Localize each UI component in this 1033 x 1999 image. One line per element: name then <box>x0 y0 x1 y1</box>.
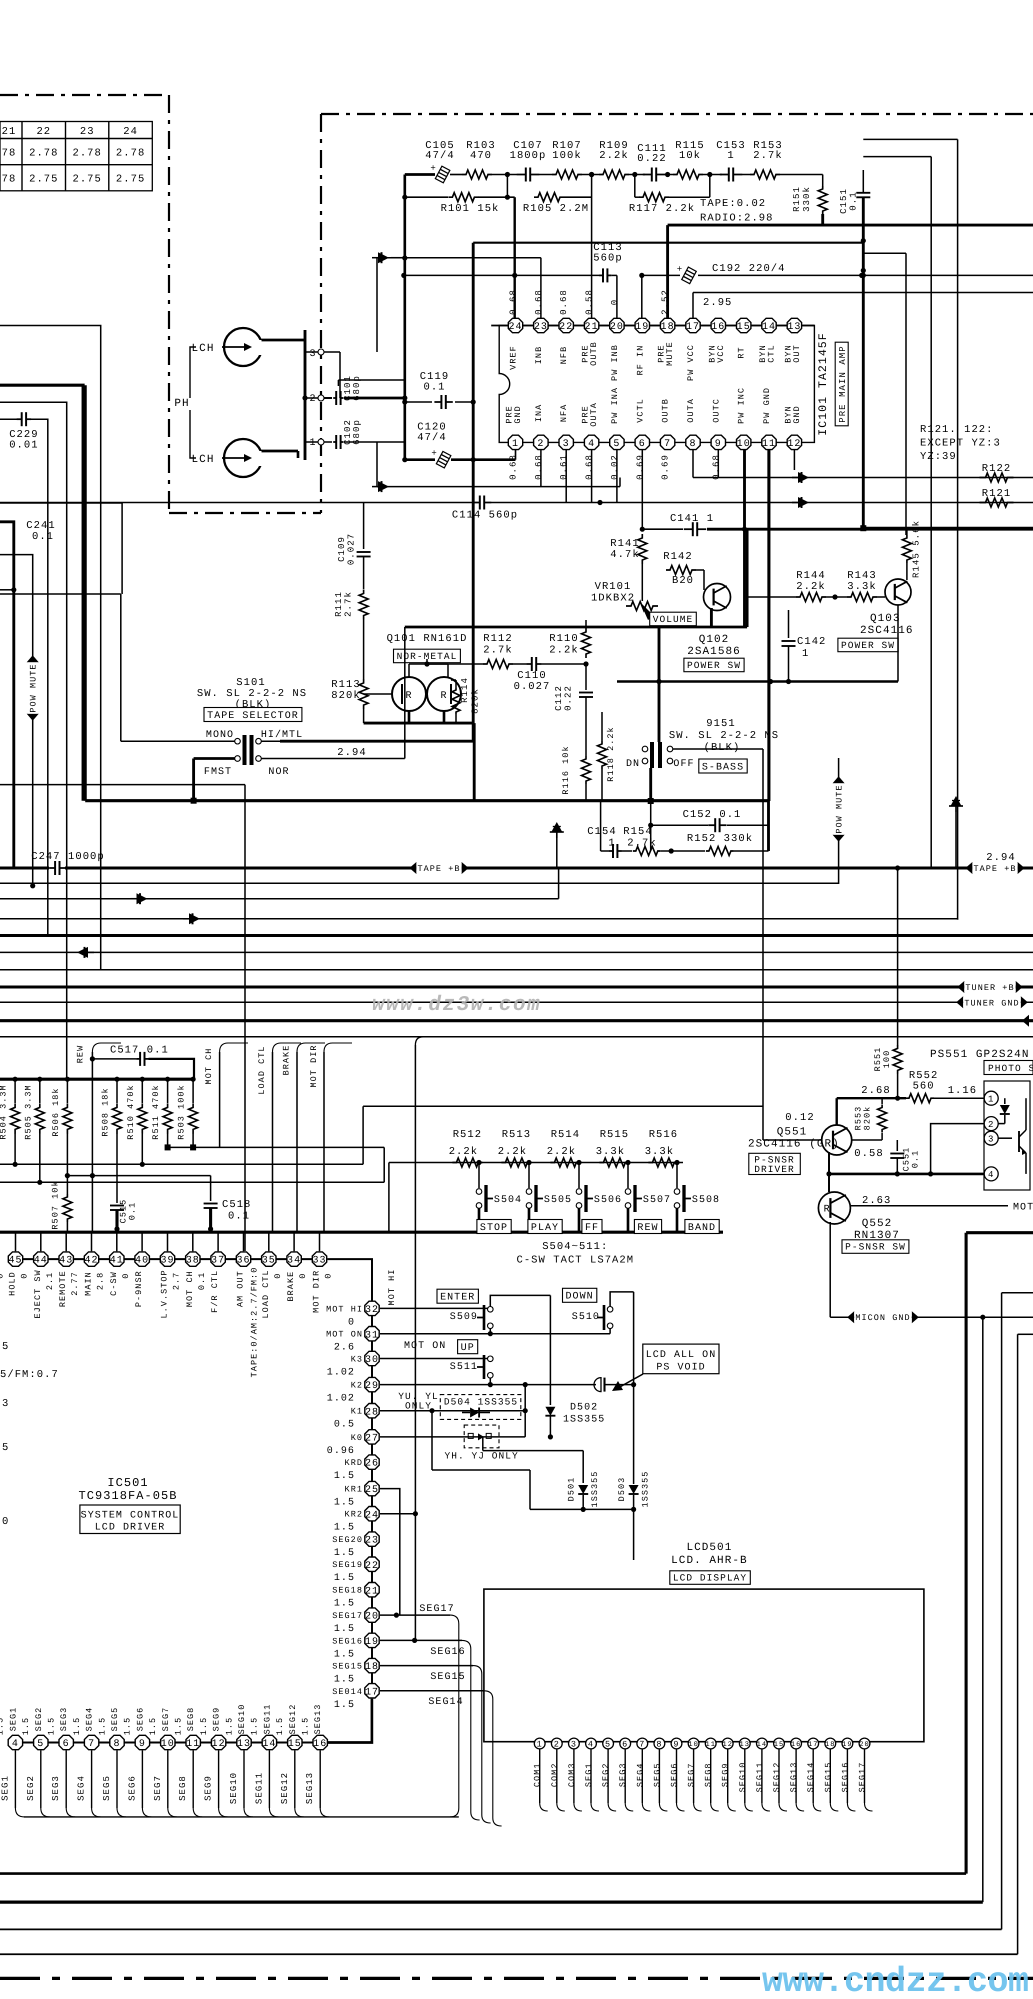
svg-text:5: 5 <box>613 439 620 450</box>
wire thick y529 <box>642 528 683 530</box>
svg-text:0.02: 0.02 <box>610 454 620 480</box>
IC501 pin 7 <box>84 1735 98 1749</box>
net MICON GND <box>830 1316 1033 1318</box>
svg-text:BRAKE: BRAKE <box>286 1271 296 1302</box>
svg-text:45: 45 <box>8 1256 22 1267</box>
resistor R103 <box>462 170 492 179</box>
ground sym right <box>951 796 962 806</box>
svg-text:www.cndzz.com: www.cndzz.com <box>762 1962 1029 1999</box>
svg-text:6: 6 <box>63 1739 70 1750</box>
svg-text:3.3k: 3.3k <box>596 1146 625 1158</box>
svg-text:12: 12 <box>787 439 801 450</box>
IC101 pin 5 <box>610 435 624 449</box>
svg-text:2.68: 2.68 <box>861 1085 890 1097</box>
svg-text:1DKBX2: 1DKBX2 <box>591 593 635 605</box>
svg-text:0.68: 0.68 <box>509 454 519 480</box>
bus line y883 <box>0 882 839 884</box>
bus line y987 thick TUNER+B <box>0 985 1033 988</box>
jack LCH bottom <box>224 439 262 477</box>
LCD pin 1 <box>534 1738 545 1749</box>
IC501 pin 36 <box>243 1232 245 1251</box>
svg-text:FF: FF <box>585 1223 599 1234</box>
photo sensor pin 1 <box>984 1091 998 1105</box>
svg-text:OUTA: OUTA <box>686 398 696 423</box>
svg-text:TAPE SELECTOR: TAPE SELECTOR <box>207 711 299 722</box>
svg-text:POWER SW: POWER SW <box>841 640 895 651</box>
svg-text:2.8: 2.8 <box>96 1272 106 1290</box>
bus line y1929 <box>0 1928 1002 1930</box>
svg-text:3: 3 <box>2 1398 9 1410</box>
svg-text:(BLK): (BLK) <box>704 742 741 754</box>
svg-text:5/FM:0.7: 5/FM:0.7 <box>0 1369 59 1381</box>
svg-text:EJECT SW: EJECT SW <box>33 1269 43 1318</box>
svg-text:SEG10: SEG10 <box>229 1772 239 1804</box>
svg-text:SEG5: SEG5 <box>110 1707 120 1732</box>
svg-text:2SA1586: 2SA1586 <box>687 646 741 658</box>
wire thick bus y1232 <box>0 1231 723 1234</box>
svg-text:D501: D501 <box>567 1477 577 1502</box>
wire arrow line y487 <box>376 442 378 487</box>
svg-text:78: 78 <box>2 148 17 160</box>
net TAPE +B line <box>0 866 49 869</box>
IC101 pin 4 <box>584 435 598 449</box>
wire pin20 SEG17 <box>380 1614 450 1616</box>
svg-text:2.78: 2.78 <box>72 148 101 160</box>
svg-text:SEG10: SEG10 <box>738 1762 748 1793</box>
svg-text:LCD DISPLAY: LCD DISPLAY <box>673 1573 747 1584</box>
svg-text:C112: C112 <box>554 685 564 711</box>
svg-text:22: 22 <box>36 126 51 138</box>
label UP <box>458 1340 478 1354</box>
svg-text:36: 36 <box>236 1256 250 1267</box>
svg-text:SEG18: SEG18 <box>332 1586 363 1596</box>
svg-text:1.5: 1.5 <box>0 1717 6 1735</box>
svg-text:TAPE:0.02: TAPE:0.02 <box>700 198 766 210</box>
svg-text:BAND: BAND <box>688 1223 716 1234</box>
capacitor C107 <box>517 174 526 176</box>
transistor Q102 <box>704 584 731 611</box>
wire Q551 emitter <box>828 1152 830 1174</box>
wire line L1 y477-486 <box>693 477 1033 479</box>
svg-text:KR1: KR1 <box>345 1485 363 1495</box>
border dash-dot IC101 block <box>320 114 322 513</box>
wire pin25 corner <box>380 1489 400 1616</box>
svg-text:SE014: SE014 <box>332 1687 363 1697</box>
svg-text:SEG12: SEG12 <box>280 1772 290 1804</box>
svg-text:0.68: 0.68 <box>509 289 519 315</box>
svg-text:SEG1: SEG1 <box>584 1762 594 1787</box>
svg-text:SEG11: SEG11 <box>755 1762 765 1793</box>
svg-text:25: 25 <box>365 1485 379 1496</box>
svg-text:SEG9: SEG9 <box>204 1775 214 1801</box>
IC501 pin 28 <box>365 1404 379 1418</box>
svg-text:RADIO:2.98: RADIO:2.98 <box>700 213 774 225</box>
svg-text:19: 19 <box>842 1741 853 1749</box>
svg-text:R142: R142 <box>663 551 692 563</box>
IC501 pin 24 <box>365 1507 379 1521</box>
IC101 pin 14 <box>762 318 776 332</box>
svg-text:47/4: 47/4 <box>417 432 446 444</box>
wire thick y627 <box>405 626 747 629</box>
IC101 pin 16 <box>711 318 725 332</box>
svg-text:B20: B20 <box>672 575 694 587</box>
LCD pin 20 <box>859 1738 870 1749</box>
svg-text:0.22: 0.22 <box>564 685 574 711</box>
svg-text:SEG13: SEG13 <box>305 1772 315 1804</box>
resistor R503 <box>191 1077 196 1082</box>
label STOP <box>477 1220 511 1234</box>
svg-text:8: 8 <box>113 1739 120 1750</box>
wire to R151 <box>780 174 823 176</box>
wire S151 OFF right <box>673 748 763 750</box>
resistor R508 <box>114 1077 119 1082</box>
svg-text:PS551 GP2S24N: PS551 GP2S24N <box>930 1049 1029 1061</box>
wire R510 bottom <box>141 1133 143 1164</box>
label PHOTO SENSOR box <box>984 1061 1033 1075</box>
photo sensor pin 3 <box>984 1131 998 1145</box>
svg-text:0: 0 <box>0 1273 6 1279</box>
svg-text:R504 3.3M: R504 3.3M <box>0 1084 9 1139</box>
svg-text:C247 1000p: C247 1000p <box>31 851 105 863</box>
wire y1164 <box>0 1163 363 1165</box>
svg-text:F/R CTL: F/R CTL <box>210 1270 220 1313</box>
svg-text:SEG9: SEG9 <box>212 1707 222 1732</box>
wire R504 bottom <box>14 1133 16 1164</box>
IC501 pin column <box>371 1308 373 1690</box>
svg-text:1.5: 1.5 <box>334 1498 355 1509</box>
svg-text:43: 43 <box>59 1256 73 1267</box>
svg-text:1.5: 1.5 <box>174 1717 184 1735</box>
svg-text:11: 11 <box>705 1741 716 1749</box>
LCD pin 17 <box>808 1738 819 1749</box>
capacitor C114 <box>473 502 480 504</box>
svg-text:R506 18k: R506 18k <box>51 1087 61 1136</box>
svg-text:0: 0 <box>324 1273 334 1279</box>
IC501 pin 19 <box>365 1633 379 1647</box>
LCD pin 13 <box>739 1738 750 1749</box>
svg-text:4: 4 <box>12 1739 19 1750</box>
bus line y1902 thick <box>0 1900 983 1903</box>
svg-text:2.94: 2.94 <box>986 852 1015 864</box>
IC501 pin 34 <box>293 1232 295 1251</box>
svg-text:SEG17: SEG17 <box>858 1762 868 1793</box>
wire S151 bottom thick <box>649 768 652 801</box>
svg-text:VREF: VREF <box>509 345 519 370</box>
svg-text:0.68: 0.68 <box>585 454 595 480</box>
wire y1147 <box>168 1146 385 1148</box>
svg-text:2.75: 2.75 <box>29 174 58 186</box>
photo sensor body <box>984 1081 1030 1190</box>
svg-text:2.2k: 2.2k <box>547 1146 576 1158</box>
IC501 pin chain top <box>16 1258 320 1260</box>
LCD pin 14 <box>757 1738 768 1749</box>
IC501 pin 39 <box>167 1232 169 1251</box>
svg-text:7: 7 <box>664 439 671 450</box>
svg-text:SEG10: SEG10 <box>237 1704 247 1735</box>
svg-text:S508: S508 <box>692 1195 720 1206</box>
svg-text:C-SW: C-SW <box>109 1271 119 1296</box>
svg-text:INB: INB <box>534 346 544 364</box>
svg-text:+: + <box>677 264 683 274</box>
svg-text:3: 3 <box>563 439 570 450</box>
svg-text:VOLUME: VOLUME <box>653 614 694 625</box>
svg-text:LOAD CTL: LOAD CTL <box>261 1269 271 1318</box>
wire right corner x1001 <box>1002 1292 1033 1294</box>
IC501 pin 5 <box>34 1735 48 1749</box>
IC101 pin 18 <box>660 318 674 332</box>
svg-text:1.5: 1.5 <box>334 1700 355 1711</box>
svg-text:18: 18 <box>825 1741 836 1749</box>
svg-text:10: 10 <box>161 1739 175 1750</box>
svg-text:11: 11 <box>186 1739 200 1750</box>
wire corner x83 thick <box>0 385 83 801</box>
svg-text:R121. 122:: R121. 122: <box>920 424 994 436</box>
svg-text:VCTL: VCTL <box>635 398 645 423</box>
bus line y1002 TUNER GND <box>0 1001 1033 1003</box>
svg-text:1.5: 1.5 <box>301 1717 311 1735</box>
IC101 pin 15 <box>737 318 751 332</box>
wire sensor pin2 left <box>931 1124 985 1174</box>
svg-text:0.1: 0.1 <box>228 1211 250 1223</box>
svg-text:1.16: 1.16 <box>948 1085 977 1097</box>
svg-text:REW: REW <box>637 1223 658 1234</box>
svg-text:OFF: OFF <box>673 759 694 770</box>
svg-text:32: 32 <box>365 1305 379 1316</box>
svg-text:K1: K1 <box>351 1407 363 1417</box>
svg-text:SEG8: SEG8 <box>178 1775 188 1801</box>
svg-text:MUTE: MUTE <box>665 341 675 366</box>
svg-text:R515: R515 <box>600 1129 629 1141</box>
svg-text:6: 6 <box>639 439 646 450</box>
LCD pin 8 <box>654 1738 665 1749</box>
label ENTER <box>437 1289 478 1303</box>
svg-text:NFB: NFB <box>559 346 569 364</box>
resistor R117 <box>635 196 640 198</box>
svg-text:PH: PH <box>174 398 189 410</box>
svg-text:0.1: 0.1 <box>128 1202 138 1220</box>
svg-text:29: 29 <box>365 1381 379 1392</box>
svg-text:C151: C151 <box>839 188 849 214</box>
svg-text:S509: S509 <box>450 1312 478 1323</box>
svg-text:HOLD: HOLD <box>8 1271 18 1296</box>
capacitor C518 <box>210 1176 212 1201</box>
transistor Q103 <box>885 579 911 605</box>
bus line y952 <box>0 951 1033 953</box>
svg-text:SEG1: SEG1 <box>8 1707 18 1732</box>
jack LCH top <box>224 328 262 366</box>
IC101 pin 8 <box>686 435 700 449</box>
svg-text:MONO: MONO <box>206 730 234 741</box>
IC501 pin 15 <box>288 1735 302 1749</box>
svg-text:20: 20 <box>610 322 624 333</box>
svg-text:4.7k: 4.7k <box>610 549 639 561</box>
svg-text:LCD DRIVER: LCD DRIVER <box>95 1523 166 1534</box>
svg-text:R110: R110 <box>549 633 578 645</box>
svg-text:SEG6: SEG6 <box>127 1775 137 1801</box>
svg-text:R503 100k: R503 100k <box>177 1084 187 1139</box>
IC501 pin 18 <box>365 1658 379 1672</box>
resistor R107 <box>552 170 582 179</box>
svg-text:0.12: 0.12 <box>785 1112 814 1124</box>
wire stub y589 <box>0 589 14 591</box>
svg-text:1.5: 1.5 <box>275 1717 285 1735</box>
svg-text:1SS355: 1SS355 <box>563 1415 605 1426</box>
svg-text:680p: 680p <box>352 419 362 445</box>
wire K2 down <box>633 1292 635 1484</box>
svg-text:35: 35 <box>262 1256 276 1267</box>
svg-text:SEG9: SEG9 <box>721 1762 731 1787</box>
svg-text:SEG4: SEG4 <box>635 1762 645 1787</box>
svg-text:820k: 820k <box>471 688 481 714</box>
svg-text:0.58: 0.58 <box>854 1148 883 1160</box>
capacitor C101 <box>324 397 332 399</box>
svg-text:ENTER: ENTER <box>440 1293 475 1304</box>
svg-text:MICON GND: MICON GND <box>855 1313 910 1323</box>
svg-text:IC101 TA2145F: IC101 TA2145F <box>817 332 830 435</box>
svg-text:10: 10 <box>737 439 751 450</box>
svg-text:Q102: Q102 <box>699 634 730 646</box>
bus line y935 thick <box>0 934 1033 937</box>
wire base left <box>363 663 365 665</box>
IC501 pin 45 <box>15 1232 17 1251</box>
IC501 pin 8 <box>110 1735 124 1749</box>
switch S101 <box>235 738 241 744</box>
svg-text:GND: GND <box>513 405 523 423</box>
IC501 pin 29 <box>365 1377 379 1391</box>
LCD pin 5 <box>603 1738 614 1749</box>
svg-text:NFA: NFA <box>559 404 569 422</box>
wire 2.95 line <box>693 292 1033 294</box>
wire y242 <box>473 242 863 244</box>
wire y1175 <box>67 1175 210 1177</box>
svg-text:S505: S505 <box>544 1195 572 1206</box>
svg-text:12: 12 <box>212 1739 226 1750</box>
bus line y1954 <box>0 1953 1018 1955</box>
svg-text:C518: C518 <box>222 1199 251 1211</box>
svg-text:TC9318FA-05B: TC9318FA-05B <box>78 1489 177 1503</box>
svg-text:2.95: 2.95 <box>703 297 732 309</box>
wire R511 R503 bottom <box>167 1133 169 1147</box>
svg-text:BRAKE: BRAKE <box>282 1045 292 1076</box>
IC501 pin 30 <box>365 1351 379 1365</box>
wire key resistor row <box>389 1162 683 1164</box>
svg-text:1: 1 <box>802 648 809 660</box>
wire x957 corner bottom <box>957 918 959 921</box>
svg-text:16: 16 <box>711 322 725 333</box>
svg-text:3.3k: 3.3k <box>847 581 876 593</box>
svg-text:0: 0 <box>20 1273 30 1279</box>
op-amp IC101 body <box>499 326 814 443</box>
svg-text:C142: C142 <box>797 636 826 648</box>
svg-text:SEG2: SEG2 <box>34 1707 44 1732</box>
svg-text:11: 11 <box>762 439 776 450</box>
wire arrow up <box>376 258 378 352</box>
wire pin33 to pin32 <box>327 1259 372 1301</box>
svg-text:1.5: 1.5 <box>72 1717 82 1735</box>
svg-text:R121: R121 <box>982 488 1011 500</box>
svg-text:23: 23 <box>365 1536 379 1547</box>
svg-text:21: 21 <box>2 126 17 138</box>
svg-text:OUTB: OUTB <box>589 341 599 366</box>
resistor R145 <box>902 535 911 563</box>
svg-text:S506: S506 <box>594 1195 622 1206</box>
label P-SNSR DRIVER box <box>749 1153 801 1174</box>
svg-text:MOT CH: MOT CH <box>204 1048 214 1085</box>
svg-text:S504: S504 <box>494 1195 522 1206</box>
IC501 pin 41 <box>116 1232 118 1251</box>
svg-text:R101 15k: R101 15k <box>441 203 500 215</box>
svg-text:26: 26 <box>365 1459 379 1470</box>
svg-text:38: 38 <box>186 1256 200 1267</box>
svg-text:SEG8: SEG8 <box>186 1707 196 1732</box>
svg-text:D502: D502 <box>570 1403 598 1414</box>
wire thick bus y1079 <box>0 1078 195 1081</box>
wire enter-down jumper <box>490 1295 550 1306</box>
IC101 pin 7 <box>660 435 674 449</box>
svg-text:1: 1 <box>988 1094 994 1104</box>
svg-text:REMOTE: REMOTE <box>58 1270 68 1307</box>
svg-text:AM OUT: AM OUT <box>236 1270 246 1307</box>
svg-text:13: 13 <box>237 1739 251 1750</box>
svg-text:DN: DN <box>626 759 640 770</box>
LCD pin 2 <box>551 1738 562 1749</box>
photo sensor pin 4 <box>984 1167 998 1181</box>
IC101 pin 3 <box>559 435 573 449</box>
LCD pin 3 <box>569 1738 580 1749</box>
wire FMST thick <box>194 757 235 760</box>
resistor R504 <box>13 1077 18 1082</box>
svg-text:1.5: 1.5 <box>334 1649 355 1660</box>
svg-text:4: 4 <box>588 439 595 450</box>
svg-text:VCC: VCC <box>716 344 726 362</box>
IC101 pin 22 <box>559 318 573 332</box>
svg-text:15: 15 <box>288 1739 302 1750</box>
svg-text:31: 31 <box>365 1330 379 1341</box>
svg-text:1.5: 1.5 <box>334 1624 355 1635</box>
svg-text:17: 17 <box>808 1741 819 1749</box>
svg-text:SEG5: SEG5 <box>652 1762 662 1787</box>
svg-text:YH. YJ ONLY: YH. YJ ONLY <box>444 1451 518 1462</box>
svg-text:P-SNSR SW: P-SNSR SW <box>845 1242 906 1253</box>
svg-text:R154: R154 <box>623 826 652 838</box>
svg-text:Q103: Q103 <box>870 613 901 625</box>
wire RF in <box>377 257 541 259</box>
svg-text:2.75: 2.75 <box>72 174 101 186</box>
svg-text:10: 10 <box>688 1741 699 1749</box>
svg-text:COM2: COM2 <box>550 1762 560 1787</box>
svg-text:GND: GND <box>792 405 802 423</box>
wire pin18 SEG15 <box>380 1665 473 1667</box>
svg-text:100k: 100k <box>552 150 581 162</box>
wire top row <box>405 173 435 176</box>
resistor R109 <box>599 170 629 179</box>
svg-text:0.027: 0.027 <box>514 681 551 693</box>
svg-text:18: 18 <box>661 322 675 333</box>
svg-text:2.2k: 2.2k <box>498 1146 527 1158</box>
svg-text:R: R <box>405 691 412 702</box>
wire HI/MTL thick <box>262 740 281 742</box>
svg-text:17: 17 <box>686 322 700 333</box>
svg-text:27: 27 <box>365 1434 379 1445</box>
wire Q101 tops <box>408 664 410 677</box>
IC101 pin 17 <box>686 318 700 332</box>
svg-text:PW INA: PW INA <box>610 387 620 424</box>
svg-text:CTL: CTL <box>767 344 777 362</box>
svg-text:www.dz3w.com: www.dz3w.com <box>372 994 541 1017</box>
wire pin17 SEG14 <box>380 1690 484 1692</box>
svg-text:TAPE:0/AM:2.7/FM:0: TAPE:0/AM:2.7/FM:0 <box>250 1267 260 1378</box>
switch S151 <box>642 746 648 752</box>
